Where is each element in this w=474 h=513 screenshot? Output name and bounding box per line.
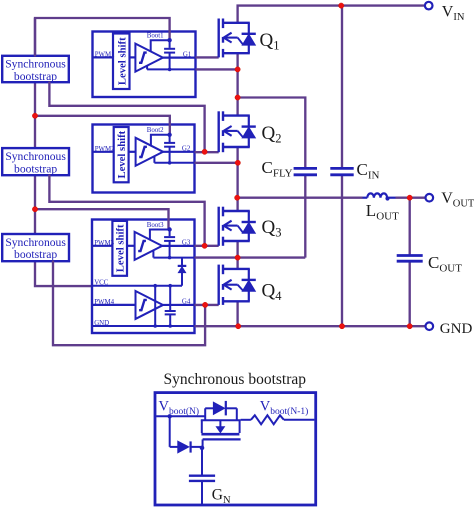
svg-text:Boot2: Boot2 <box>147 127 164 134</box>
svg-text:Synchronous bootstrap: Synchronous bootstrap <box>164 371 307 388</box>
svg-text:PWM3: PWM3 <box>94 240 114 247</box>
svg-text:GND: GND <box>440 321 473 337</box>
svg-text:G1: G1 <box>183 51 192 58</box>
svg-text:Synchronous: Synchronous <box>5 236 66 249</box>
svg-text:bootstrap: bootstrap <box>14 162 57 175</box>
svg-text:Boot1: Boot1 <box>147 33 164 40</box>
svg-text:PWM2: PWM2 <box>95 146 115 153</box>
svg-text:G4: G4 <box>182 299 191 306</box>
svg-text:Synchronous: Synchronous <box>5 58 66 71</box>
svg-text:bootstrap: bootstrap <box>14 248 57 261</box>
svg-text:bootstrap: bootstrap <box>14 70 57 83</box>
svg-text:Boot3: Boot3 <box>147 222 164 229</box>
svg-text:Level shift: Level shift <box>116 130 128 178</box>
svg-text:PWM1: PWM1 <box>95 51 115 58</box>
svg-text:PWM4: PWM4 <box>94 299 114 306</box>
svg-text:G2: G2 <box>182 146 191 153</box>
svg-text:VCC: VCC <box>94 279 109 286</box>
svg-text:GND: GND <box>94 320 109 327</box>
svg-text:Level shift: Level shift <box>115 224 127 272</box>
svg-text:Level shift: Level shift <box>116 37 128 85</box>
svg-text:Synchronous: Synchronous <box>5 150 66 163</box>
svg-text:G3: G3 <box>182 240 191 247</box>
